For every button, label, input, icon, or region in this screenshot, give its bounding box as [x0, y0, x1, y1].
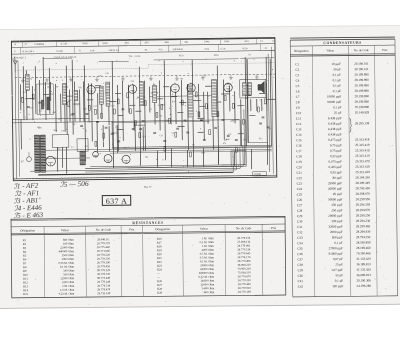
wire: [240, 99, 243, 146]
svg-text:1200: 1200: [87, 122, 91, 124]
tube V3 AF3: [171, 83, 180, 93]
svg-text:C33: C33: [159, 135, 162, 137]
wire: [102, 125, 104, 147]
top connector wire 3: [43, 57, 72, 59]
wire jumper: [237, 105, 244, 107]
wire jumper: [138, 124, 146, 126]
handwritten note E5-506: [60, 179, 89, 189]
svg-text:C22: C22: [85, 146, 88, 148]
svg-text:28.199.890: 28.199.890: [354, 78, 369, 82]
svg-text:C13: C13: [296, 127, 302, 131]
svg-text:340 Ohm: 340 Ohm: [203, 290, 215, 294]
wire: [128, 85, 130, 113]
resistor box 19: [257, 107, 259, 112]
svg-text:6,3 A: 6,3 A: [221, 47, 226, 50]
bus y170.6: [85, 170, 236, 172]
svg-text:10 µµF: 10 µµF: [331, 62, 341, 66]
svg-text:25.315.419: 25.315.419: [355, 143, 370, 147]
wire: [84, 65, 85, 161]
wire: [112, 61, 113, 168]
wire jumper: [171, 96, 177, 98]
tube V2 AF3: [128, 83, 137, 93]
page bottom edge: [0, 304, 400, 308]
wire: [229, 85, 231, 111]
svg-text:28.299.550: 28.299.550: [356, 197, 371, 201]
svg-text:R7: R7: [56, 86, 58, 88]
capacitor mark 12: [163, 140, 166, 141]
svg-text:C38: C38: [83, 108, 86, 110]
wire: [69, 90, 71, 122]
resistor box 6: [117, 99, 119, 104]
capacitor mark 19: [262, 117, 265, 118]
wire: [234, 91, 236, 123]
wire jumper: [238, 133, 244, 135]
svg-text:1: 1: [97, 62, 98, 64]
wire: [170, 148, 172, 167]
svg-text:C14: C14: [23, 92, 26, 94]
svg-text:6.438 µµF: 6.438 µµF: [328, 122, 342, 126]
bus y172.9 heavy: [38, 172, 233, 175]
resistor box 4: [94, 109, 96, 114]
svg-text:C31: C31: [297, 225, 303, 229]
svg-text:C24: C24: [142, 136, 145, 138]
svg-text:R2: R2: [192, 144, 194, 146]
svg-text:80 µµF: 80 µµF: [333, 176, 343, 180]
svg-text:28.299.430: 28.299.430: [356, 230, 371, 234]
svg-text:H. M. 250.1: H. M. 250.1: [23, 51, 35, 53]
wire row y146.4: [112, 145, 272, 147]
capacitor mark 5: [96, 121, 99, 122]
capacitor mark 9: [132, 129, 135, 130]
wire row y147.7: [112, 147, 272, 149]
resistor box 25: [224, 95, 226, 100]
wire: [87, 83, 90, 121]
svg-text:R25: R25: [47, 87, 50, 89]
resistor box 32: [190, 152, 192, 157]
capacitor mark 15: [200, 120, 203, 121]
wire: [65, 66, 68, 135]
wire: [97, 93, 99, 119]
svg-text:R5: R5: [160, 116, 162, 118]
svg-text:R15: R15: [161, 105, 164, 107]
wire: [65, 147, 67, 173]
wire jumper: [177, 112, 183, 114]
AVC dotted line left: [15, 68, 149, 70]
tube V10 AZ1: [122, 155, 130, 163]
svg-text:70.199.890: 70.199.890: [355, 105, 370, 109]
svg-text:25.313.418: 25.313.418: [355, 138, 370, 142]
tuning capacitor box: [37, 84, 54, 115]
svg-text:5000: 5000: [201, 152, 205, 154]
resistor box 14: [198, 112, 200, 117]
AVC dotted line right: [149, 63, 275, 65]
capacitor mark 1: [27, 106, 30, 107]
svg-text:a: a: [23, 62, 24, 64]
svg-text:70.190.466: 70.190.466: [356, 251, 371, 255]
svg-text:Désignation: Désignation: [294, 49, 309, 53]
wire: [202, 148, 204, 167]
svg-text:23186: 23186: [254, 173, 261, 176]
svg-text:300: 300: [145, 157, 148, 159]
svg-text:Désignation: Désignation: [20, 228, 35, 232]
resistances table column headers: [20, 226, 276, 233]
loop vertical right: [239, 120, 241, 146]
svg-text:k: k: [183, 61, 184, 63]
svg-text:3: 3: [136, 62, 137, 64]
wire jumper: [198, 131, 204, 133]
wire jumper: [221, 93, 229, 95]
wire: [143, 81, 146, 151]
svg-text:C16: C16: [296, 144, 302, 148]
coil L3: [62, 84, 66, 105]
handwritten note E2-AF1: [15, 189, 40, 198]
wire: [175, 92, 177, 124]
svg-text:0,25: 0,25: [39, 110, 43, 112]
svg-text:C36: C36: [297, 252, 303, 256]
wire: [56, 147, 58, 171]
IF transformer S1b: [153, 85, 157, 102]
wire jumper: [117, 114, 123, 116]
svg-text:V2a: V2a: [159, 49, 163, 51]
ground: [229, 75, 233, 80]
svg-text:R4: R4: [153, 84, 155, 86]
svg-text:C11: C11: [296, 117, 302, 121]
wire: [180, 80, 183, 140]
coil L4: [74, 91, 78, 101]
svg-text:C40: C40: [298, 274, 304, 278]
svg-text:25.315.439: 25.315.439: [355, 170, 370, 174]
svg-text:65,2a: 65,2a: [243, 48, 248, 50]
output coil hatched: [80, 151, 86, 165]
wire jumper: [65, 95, 73, 97]
svg-text:C30: C30: [105, 92, 108, 94]
svg-text:C12: C12: [94, 106, 97, 108]
wire: [156, 150, 158, 167]
svg-text:250 µµF: 250 µµF: [331, 203, 342, 207]
svg-text:C29: C29: [297, 214, 303, 218]
svg-text:6.438 µµF: 6.438 µµF: [328, 127, 342, 131]
svg-text:4: 4: [39, 61, 40, 63]
coil L2 inside gang: [47, 97, 50, 110]
svg-text:25: 25: [30, 79, 32, 81]
svg-text:28.295.138: 28.295.138: [355, 121, 370, 125]
wire jumper: [129, 104, 135, 106]
capacitor mark 27: [259, 123, 262, 124]
wire jumper: [137, 96, 145, 98]
IF can B: [106, 82, 110, 106]
svg-text:C21: C21: [297, 171, 303, 175]
svg-text:C27: C27: [297, 203, 303, 207]
svg-text:CONDENSATEURS: CONDENSATEURS: [323, 41, 361, 45]
svg-text:A. 5.05: A. 5.05: [60, 42, 68, 45]
svg-text:6: 6: [254, 59, 255, 61]
IF transformer S3: [211, 80, 217, 117]
wire: [32, 86, 34, 120]
capacitor mark 26: [227, 135, 230, 136]
capacitor mark 11: [153, 132, 156, 133]
svg-text:C17: C17: [296, 149, 302, 153]
svg-text:6.3: 6.3: [71, 147, 74, 149]
capacitor mark 8: [121, 109, 124, 110]
capacitor mark 10: [142, 121, 145, 122]
svg-text:C32: C32: [297, 230, 303, 234]
wire: [22, 66, 25, 120]
svg-text:C8: C8: [296, 100, 300, 104]
tube V4 AB1: [187, 82, 196, 92]
wire jumper: [95, 85, 101, 87]
svg-text:10000 µµF: 10000 µµF: [327, 94, 341, 98]
svg-text:24.199.280: 24.199.280: [357, 284, 372, 288]
wire jumper: [205, 85, 212, 87]
wire row y150.4: [95, 149, 272, 151]
capacitor mark 17: [222, 119, 225, 120]
tube V5 E446: [224, 82, 233, 92]
svg-text:R12: R12: [57, 148, 60, 150]
ground: [21, 78, 25, 83]
type label 637 A: [102, 195, 131, 205]
wire: [90, 83, 93, 141]
svg-text:9: 9: [234, 60, 235, 62]
capacitor mark 25: [203, 140, 206, 141]
svg-text:No. de Code: No. de Code: [96, 228, 112, 232]
wire: [266, 57, 268, 165]
svg-text:R18: R18: [110, 134, 113, 136]
wire: [20, 119, 22, 149]
wire: [54, 84, 57, 132]
svg-text:390 µµF: 390 µµF: [331, 219, 342, 223]
wire row y121.5: [112, 121, 210, 122]
svg-text:9.505: 9.505: [102, 43, 108, 45]
resistor box 11: [161, 104, 163, 109]
wire jumper: [135, 110, 141, 112]
resistor box 2: [32, 94, 34, 99]
resistor box 30: [236, 147, 238, 152]
svg-text:20.190.306: 20.190.306: [356, 278, 371, 282]
IF can A: [99, 86, 103, 104]
svg-text:C40: C40: [52, 112, 55, 114]
tube V7 rectifier: [46, 156, 56, 166]
svg-text:C12: C12: [296, 122, 302, 126]
svg-text:R3: R3: [188, 91, 190, 93]
resistor box 18: [243, 119, 245, 124]
resistances table frame: [11, 216, 286, 297]
wire: [117, 85, 120, 151]
svg-text:28.299.465: 28.299.465: [356, 224, 371, 228]
wire: [116, 125, 118, 153]
wire: [61, 147, 63, 167]
capacitor mark 20: [267, 127, 270, 128]
svg-text:55 µF: 55 µF: [335, 273, 343, 277]
svg-text:45,6a: 45,6a: [214, 55, 219, 57]
wire jumper: [245, 85, 251, 87]
svg-text:28.733.149: 28.733.149: [97, 291, 111, 295]
wire jumper: [107, 100, 116, 102]
svg-text:C24: C24: [297, 187, 303, 191]
svg-text:C25: C25: [29, 107, 32, 109]
wire: [211, 80, 214, 150]
svg-text:No. de Code: No. de Code: [354, 48, 370, 52]
svg-text:8: 8: [112, 144, 113, 146]
svg-text:2: 2: [206, 59, 207, 61]
antenna symbol: [13, 61, 17, 73]
svg-text:25 Ω: 25 Ω: [205, 49, 210, 51]
speaker: [258, 81, 265, 93]
wire jumper: [259, 92, 265, 94]
resistor box 13: [181, 100, 183, 105]
wire: [60, 94, 62, 122]
handwritten note E1-AF2: [13, 182, 38, 191]
svg-text:C35: C35: [297, 247, 303, 251]
svg-text:C1: C1: [85, 130, 87, 132]
svg-text:59.05: 59.05: [82, 43, 88, 45]
svg-text:50 µF: 50 µF: [333, 67, 341, 71]
svg-text:32000 µµF: 32000 µµF: [328, 225, 342, 229]
svg-text:C10: C10: [296, 111, 302, 115]
svg-text:25.315.479: 25.315.479: [355, 159, 370, 163]
wire jumper: [232, 119, 240, 121]
condensateurs table column headers: [294, 48, 388, 53]
svg-text:R16: R16: [226, 139, 229, 141]
svg-text:R9: R9: [73, 124, 75, 126]
svg-text:Prix: Prix: [271, 226, 277, 230]
resistor box 16: [217, 112, 219, 117]
svg-text:C36: C36: [131, 81, 134, 83]
wire: [198, 84, 200, 118]
handwritten note E4-E446: [14, 204, 42, 213]
chassis dashed line: [15, 74, 275, 78]
svg-text:C29: C29: [98, 75, 101, 77]
svg-text:C28: C28: [297, 209, 303, 213]
svg-text:C23: C23: [297, 182, 303, 186]
wire jumper: [245, 95, 251, 97]
svg-text:28.294.359: 28.294.359: [356, 203, 371, 207]
svg-text:p: p: [56, 63, 57, 65]
resistor box 5: [101, 113, 103, 118]
wire: [192, 60, 193, 167]
tube V8 indicator: [93, 151, 99, 157]
resistor box 3: [68, 102, 70, 107]
svg-text:C25: C25: [297, 192, 303, 196]
svg-text:No. de Code: No. de Code: [236, 226, 252, 230]
resistances table data: [23, 236, 252, 296]
svg-text:C1: C1: [295, 62, 299, 66]
wire: [250, 149, 252, 169]
svg-text:C9: C9: [204, 75, 206, 77]
svg-text:R26: R26: [78, 87, 81, 89]
svg-text:5: 5: [77, 61, 78, 63]
loop vertical left: [111, 121, 113, 147]
svg-text:31.133.420: 31.133.420: [356, 268, 371, 272]
wire row y117: [12, 118, 89, 119]
svg-text:27000 µµF: 27000 µµF: [329, 246, 343, 250]
bus corner risers: [233, 120, 247, 173]
svg-text:Prix: Prix: [382, 48, 388, 52]
svg-text:C5: C5: [296, 84, 300, 88]
wire jumper: [151, 92, 158, 94]
svg-text:Ua/Ug: Ua/Ug: [57, 50, 64, 53]
svg-text:C11: C11: [37, 127, 40, 129]
output transformer box: [240, 79, 266, 98]
svg-text:Valeur: Valeur: [326, 48, 334, 52]
top connector wire 1: [154, 59, 239, 60]
svg-text:250/76. 0,1: 250/76. 0,1: [109, 50, 120, 52]
wire jumper: [94, 87, 102, 89]
svg-text:Ia Is: Ia Is: [91, 50, 95, 52]
dotted jog: [148, 65, 150, 69]
resistor box 9: [144, 101, 146, 106]
coil L6: [248, 83, 252, 96]
wire row y152.1: [110, 151, 272, 153]
svg-text:C42: C42: [298, 285, 304, 289]
svg-text:28.299.250: 28.299.250: [356, 213, 371, 217]
resistor box 17: [232, 103, 234, 108]
wire jumper: [163, 86, 169, 88]
svg-text:25.315.419: 25.315.419: [355, 154, 370, 158]
power transformer T1: [34, 135, 46, 172]
junction dots: [20, 69, 276, 174]
svg-text:C39: C39: [298, 268, 304, 272]
ground: [45, 77, 49, 82]
svg-text:10,2a: 10,2a: [179, 55, 184, 57]
svg-text:C4: C4: [296, 79, 300, 83]
svg-text:R15: R15: [23, 292, 28, 296]
svg-text:Valeur: Valeur: [61, 228, 69, 232]
svg-text:200: 200: [243, 139, 246, 141]
svg-text:0,22 M. Ohm: 0,22 M. Ohm: [59, 292, 75, 296]
ground: [149, 76, 153, 81]
schematic frame: [11, 38, 276, 181]
svg-text:R10: R10: [231, 121, 234, 123]
svg-text:Prix: Prix: [129, 227, 135, 231]
svg-text:50000 µµF: 50000 µµF: [328, 197, 342, 201]
wire: [101, 93, 103, 119]
top connector wire 2: [99, 60, 129, 62]
resistor box 33: [95, 141, 97, 146]
svg-text:470: 470: [223, 143, 226, 145]
svg-text:28.194.330: 28.194.330: [355, 175, 370, 179]
svg-text:C7: C7: [296, 95, 300, 99]
svg-text:C19: C19: [296, 160, 302, 164]
svg-text:6.438 µµF: 6.438 µµF: [328, 132, 342, 136]
handwritten note E3-AB1: [14, 196, 42, 205]
wire: [222, 79, 225, 139]
tube table header text row 3: [14, 53, 251, 59]
wire: [44, 82, 47, 120]
svg-text:250/250 82: 250/250 82: [173, 49, 184, 51]
right inner rail: [268, 54, 270, 172]
capacitor mark 3: [72, 114, 75, 115]
svg-text:C18: C18: [296, 154, 302, 158]
brace for C11-C14: [349, 118, 351, 132]
capacitor mark 24: [117, 141, 120, 142]
capacitor mark 2: [38, 102, 41, 103]
wire: [142, 127, 144, 151]
svg-text:C9: C9: [296, 106, 300, 110]
svg-text:C15: C15: [296, 138, 302, 142]
svg-text:C27: C27: [111, 105, 114, 107]
ground: [95, 77, 99, 82]
condensateurs table column rules: [312, 45, 377, 296]
wire row y120.4: [13, 120, 240, 123]
svg-text:C22: C22: [297, 176, 303, 180]
wire: [25, 70, 28, 120]
condensateurs table data: [295, 62, 371, 289]
wire: [245, 57, 246, 146]
svg-text:R29: R29: [157, 291, 162, 295]
svg-text:C31: C31: [268, 128, 271, 130]
wire: [270, 59, 271, 146]
svg-text:V2a — 6,3Α.: V2a — 6,3Α.: [129, 55, 141, 58]
